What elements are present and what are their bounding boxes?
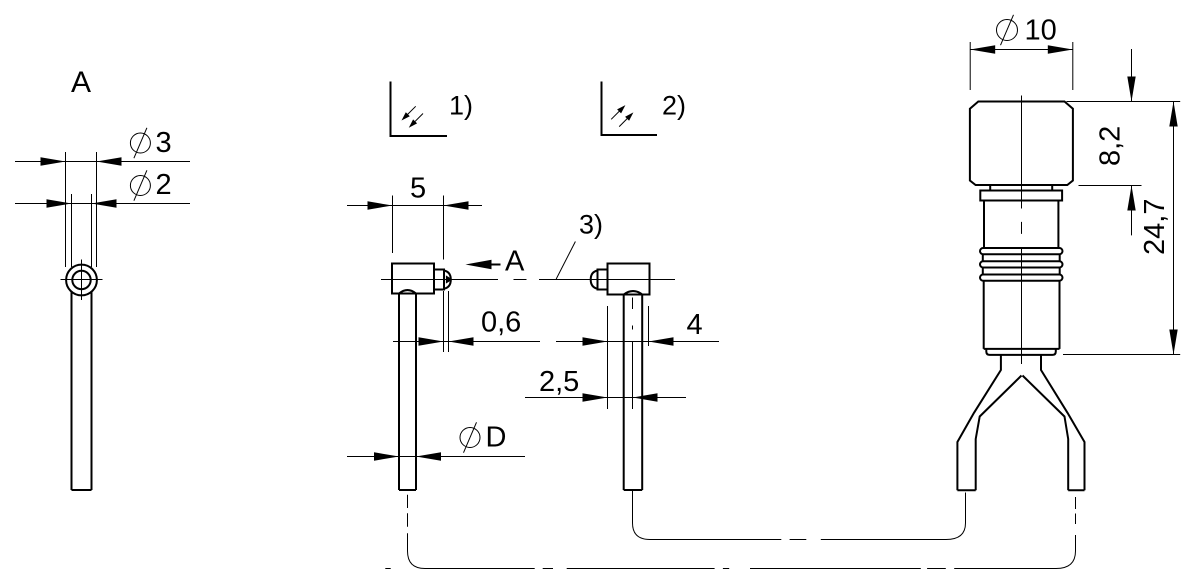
arrow 4 left — [583, 337, 608, 345]
right tube centerline dash — [632, 298, 634, 310]
svg-text:3: 3 — [156, 127, 172, 159]
right tube centerline dot — [632, 326, 634, 330]
arrow ØD left — [374, 452, 399, 460]
left probe tube bottom — [399, 489, 416, 491]
right probe tube right edge — [641, 295, 643, 491]
end view crosshair vertical — [81, 260, 83, 301]
svg-text:D: D — [486, 422, 507, 454]
svg-text:24,7: 24,7 — [1139, 199, 1171, 255]
dim Ø10 extension right — [1072, 42, 1074, 90]
cable route B dot — [723, 568, 729, 570]
connector rib 2 — [980, 261, 1063, 267]
right probe nub — [598, 270, 608, 290]
cable route B dash 4 — [927, 568, 946, 570]
arrow 24,7 top — [1169, 102, 1177, 127]
connector centerline lower — [1021, 249, 1023, 364]
left probe neck arc — [399, 290, 416, 293]
left cable inner edge — [976, 376, 1022, 491]
ØD symbol — [460, 422, 480, 452]
arrow 2,5 left — [583, 393, 608, 401]
optical symbol 1 arrow b — [409, 114, 423, 128]
dim line 24,7 — [1173, 102, 1175, 355]
dim line 0,6 — [393, 341, 540, 343]
svg-text:2: 2 — [156, 169, 172, 201]
optical symbol 2 corner — [602, 82, 658, 136]
arrow Ø10 left — [970, 45, 995, 53]
connector neck right — [1051, 185, 1053, 191]
arrow ØD right — [416, 452, 441, 460]
connector upper body right — [1057, 201, 1059, 249]
svg-text:3): 3) — [579, 210, 603, 240]
dim line 5 — [347, 205, 482, 207]
cable route B dash 6 — [1075, 497, 1077, 509]
optical symbol 2 arrow b — [619, 112, 633, 126]
optical axis centerline dash — [514, 279, 527, 281]
dim 4 extension right — [648, 306, 650, 346]
arrow Ø2 left — [47, 199, 72, 207]
dim 0,6 extension right — [448, 291, 450, 352]
cable route B dash 2 — [407, 513, 409, 526]
end view crosshair horizontal — [61, 279, 103, 281]
dim ØD line — [347, 456, 525, 458]
svg-text:0,6: 0,6 — [481, 307, 521, 339]
optical symbol 2 arrow a — [611, 105, 625, 119]
right cable end — [1068, 489, 1084, 491]
svg-text:A: A — [505, 246, 525, 278]
connector bottom band — [986, 349, 1056, 355]
connector centerline dash — [1021, 222, 1023, 234]
dim 8,2 top extension — [1067, 101, 1181, 103]
connector centerline upper — [1021, 96, 1023, 209]
connector lower body left — [983, 281, 985, 349]
cable route B corner dash — [385, 568, 390, 570]
dim 5 extension right — [443, 196, 445, 260]
svg-text:4: 4 — [687, 309, 703, 341]
cable route B segment 3 — [750, 568, 921, 570]
connector rib 1 — [980, 248, 1063, 254]
connector band 1 right — [1059, 254, 1061, 261]
end view outer circle — [66, 265, 97, 296]
arrow 5 left — [368, 201, 393, 209]
cable route B segment 1 — [408, 533, 535, 568]
optical axis centerline segment 1 — [381, 279, 498, 281]
right probe tube left edge — [623, 295, 625, 491]
svg-text:5: 5 — [410, 173, 426, 205]
dim 8,2 line below — [1131, 186, 1133, 236]
extension line Ø2 left — [71, 194, 73, 267]
left cable outer edge — [957, 355, 1001, 490]
section arrow A — [465, 260, 500, 270]
arrow 5 right — [444, 201, 469, 209]
left probe tube left edge — [398, 294, 400, 491]
connector band 2 right — [1059, 268, 1061, 275]
left probe nub — [434, 270, 444, 290]
dim 8,2 line above — [1131, 49, 1133, 102]
Ø2 symbol — [130, 170, 150, 200]
optical axis centerline segment 2 — [539, 279, 675, 281]
left probe dome — [444, 271, 451, 289]
connector cap — [970, 102, 1073, 186]
svg-text:2,5: 2,5 — [539, 366, 579, 398]
cable route A segment 2 — [821, 493, 966, 540]
extension line Ø3 right — [96, 152, 98, 267]
dim 0,6 extension left — [443, 291, 445, 352]
connector neck left — [989, 185, 991, 191]
left probe tip arrow — [446, 275, 453, 283]
dim line 2,5 left tail — [525, 397, 686, 399]
dim line Ø2 — [15, 203, 190, 205]
svg-text:2): 2) — [662, 91, 686, 121]
end view rod right edge — [91, 292, 93, 490]
dim 8,2 bottom extension — [1079, 185, 1142, 187]
arrow Ø3 left — [41, 157, 66, 165]
cable route B segment 4 — [954, 535, 1075, 569]
right tube centerline lower — [632, 341, 634, 409]
arrow 0,6 left — [419, 337, 444, 345]
svg-text:8,2: 8,2 — [1095, 126, 1127, 166]
dim line Ø3 — [15, 161, 190, 163]
right probe dome — [591, 271, 598, 289]
cable route B dash 5 — [1075, 514, 1077, 525]
cable route B dash 1 — [407, 495, 409, 508]
connector rib 3 — [980, 275, 1063, 281]
cable route B segment 2 — [567, 568, 715, 570]
arrow 2,5 right — [633, 393, 658, 401]
left probe tube right edge — [415, 294, 417, 491]
arrow 8,2 top — [1127, 77, 1135, 102]
arrow Ø2 right — [92, 199, 117, 207]
cable route A segment 1 — [633, 491, 782, 540]
connector lower body right — [1059, 281, 1061, 349]
extension line Ø2 right — [91, 194, 93, 267]
end view rod bottom — [72, 489, 92, 491]
right cable inner edge — [1023, 376, 1069, 491]
cable route A dash — [790, 539, 807, 541]
right probe tube bottom — [624, 489, 643, 491]
dim Ø10 extension left — [969, 42, 971, 90]
optical symbol 1 arrow a — [402, 106, 416, 120]
arrow 0,6 right — [449, 337, 474, 345]
dim Ø10 symbol — [997, 15, 1018, 45]
svg-text:A: A — [71, 66, 91, 99]
connector upper body left — [983, 201, 985, 249]
cable route B dash 3 — [543, 568, 553, 570]
dim line 4 — [556, 341, 719, 343]
connector band 1 left — [982, 254, 984, 261]
leader 3) — [556, 242, 575, 280]
svg-text:1): 1) — [449, 91, 473, 121]
arrow Ø10 right — [1048, 45, 1073, 53]
right probe neck arc — [624, 291, 643, 294]
optical symbol 1 corner — [391, 82, 448, 137]
arrow 24,7 bottom — [1169, 330, 1177, 355]
right cable outer edge — [1041, 355, 1085, 490]
svg-text:10: 10 — [1025, 15, 1057, 47]
end view fiber ring — [72, 271, 90, 289]
dim 5 extension left — [392, 196, 394, 254]
arrow Ø3 right — [97, 157, 122, 165]
dim line Ø10 — [970, 49, 1073, 51]
dim 4 extension left — [607, 306, 609, 409]
Ø3 symbol — [130, 128, 150, 158]
left cable end — [957, 489, 975, 491]
left probe head — [392, 264, 434, 294]
right probe head — [608, 264, 650, 295]
connector band 2 left — [982, 268, 984, 275]
connector bottom line — [984, 348, 1060, 350]
extension line Ø3 left — [65, 152, 67, 267]
dim 24,7 bottom extension — [1063, 354, 1180, 356]
arrow 4 right — [649, 337, 674, 345]
connector flange — [980, 191, 1062, 201]
arrow 8,2 bottom — [1127, 186, 1135, 211]
end view rod left edge — [71, 292, 73, 490]
